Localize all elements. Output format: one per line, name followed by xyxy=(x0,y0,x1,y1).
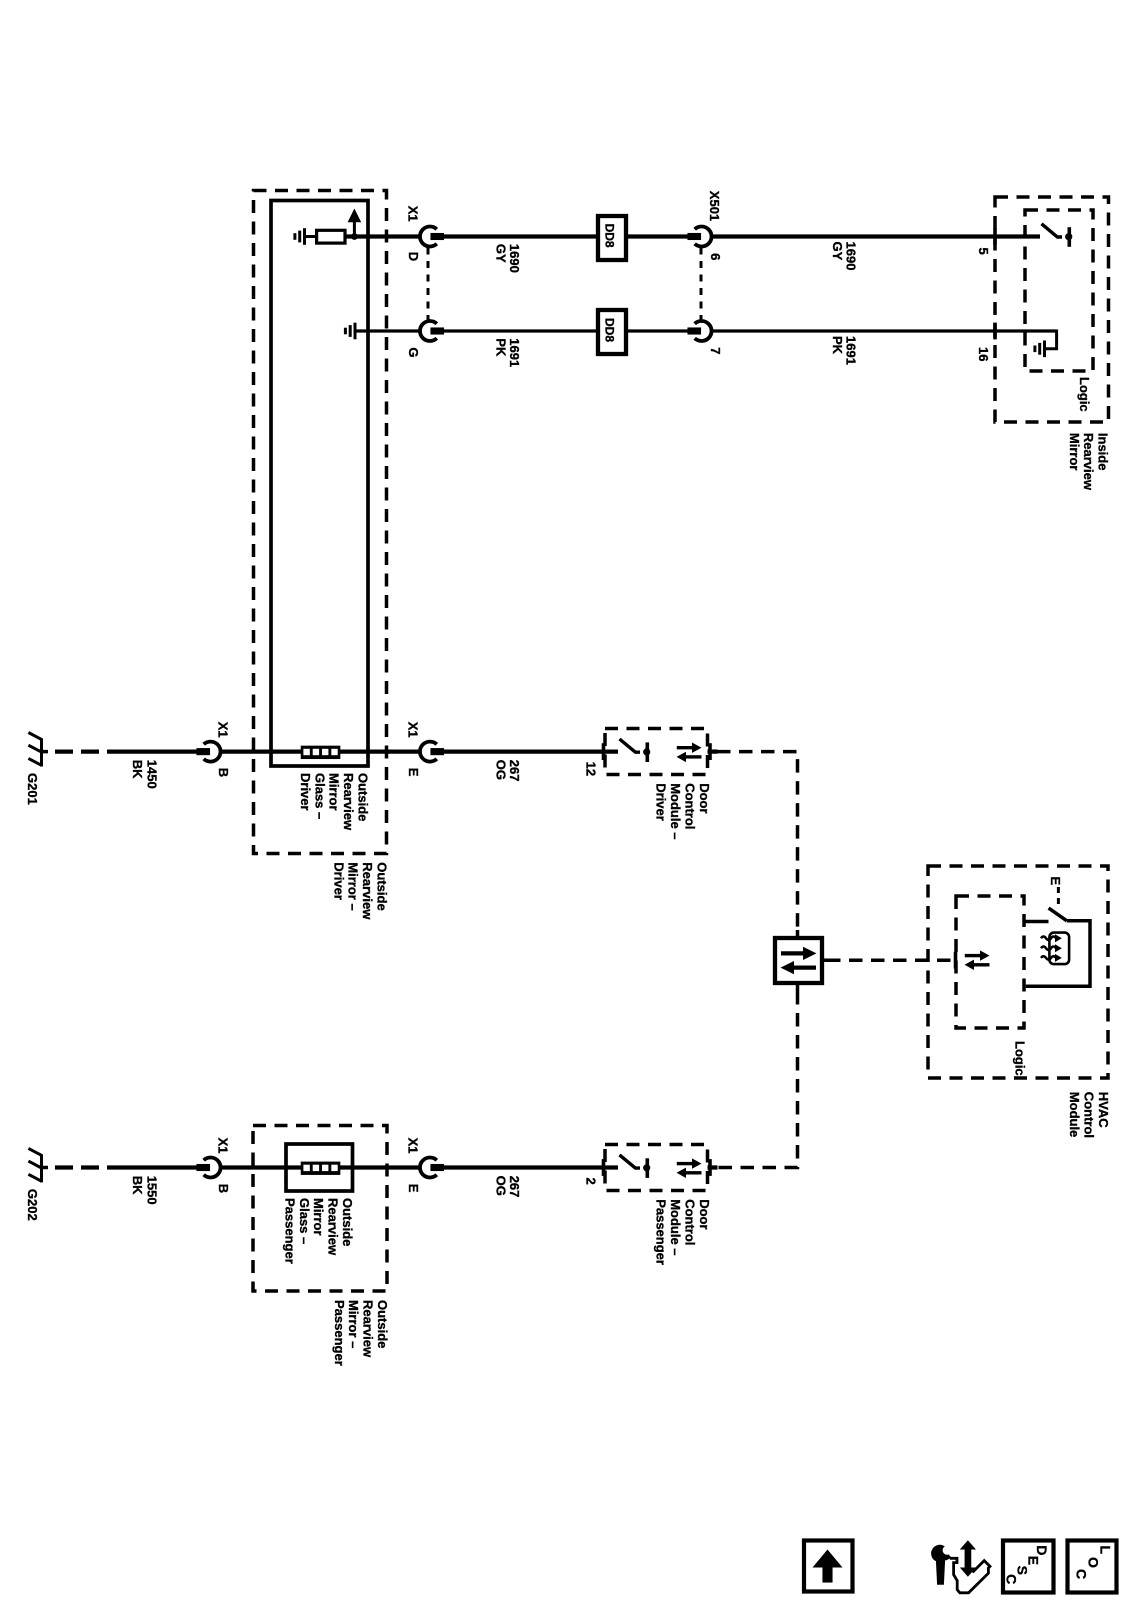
ground symbol in driver mirror glass (wire G) xyxy=(354,323,357,340)
icon box up arrow xyxy=(804,1541,853,1592)
icon box DESC xyxy=(1003,1541,1054,1593)
svg-text:OG: OG xyxy=(494,1176,509,1196)
connector X501 pin 7 xyxy=(695,321,712,341)
ground symbol in driver mirror glass (wire D) xyxy=(303,228,306,245)
svg-text:Rearview: Rearview xyxy=(360,862,375,920)
svg-text:5: 5 xyxy=(976,248,991,255)
icon wrench xyxy=(931,1545,948,1562)
dashed box HVAC Control Module xyxy=(928,866,1108,1078)
wire 1690 GY segment 1 xyxy=(444,234,600,238)
svg-text:Control: Control xyxy=(1082,1092,1097,1138)
pin tick HVAC logic xyxy=(954,952,958,969)
svg-text:Driver: Driver xyxy=(298,773,313,811)
svg-text:7: 7 xyxy=(708,347,723,354)
serial data symbol HVAC xyxy=(965,954,980,957)
svg-text:PK: PK xyxy=(830,336,845,355)
wire 1450 BK xyxy=(107,749,197,753)
svg-text:1550: 1550 xyxy=(145,1176,160,1205)
connector X1 pin B (driver) xyxy=(204,742,221,762)
svg-text:E: E xyxy=(406,768,421,777)
svg-text:Mirror: Mirror xyxy=(327,773,342,811)
dashed box Outside Rearview Mirror - Driver xyxy=(254,191,387,854)
wire 1691 PK segment 1 xyxy=(444,329,600,332)
pin tick 2 xyxy=(602,1159,606,1176)
wire 16 elbow to ground xyxy=(1046,330,1057,349)
svg-text:Module: Module xyxy=(1067,1092,1082,1138)
dashed link X1 D-G xyxy=(427,248,430,321)
icon V outline xyxy=(950,1558,990,1593)
wire into passenger glass box xyxy=(221,1165,303,1169)
svg-text:D: D xyxy=(1034,1545,1050,1555)
svg-text:Passenger: Passenger xyxy=(654,1199,669,1265)
wire 1691 PK segment 2 xyxy=(624,329,688,332)
svg-text:Rearview: Rearview xyxy=(326,1198,341,1256)
switch in inside rearview mirror xyxy=(1042,224,1063,237)
connector X1 pin D xyxy=(420,227,437,247)
svg-text:BK: BK xyxy=(130,760,145,779)
svg-text:X1: X1 xyxy=(406,206,421,222)
svg-text:Passenger: Passenger xyxy=(282,1198,297,1264)
dashed box Logic (HVAC) xyxy=(956,896,1024,1028)
svg-text:X501: X501 xyxy=(707,191,722,221)
svg-text:Door: Door xyxy=(697,1199,712,1229)
svg-text:Module –: Module – xyxy=(668,783,683,839)
connector X501 pin 6 xyxy=(695,227,712,247)
switch in door control module passenger xyxy=(620,1155,641,1168)
resistor (mirror heater element driver) xyxy=(317,230,345,243)
svg-text:Outside: Outside xyxy=(375,1300,390,1348)
svg-text:Rearview: Rearview xyxy=(341,773,356,831)
stub out of door module passenger xyxy=(708,1165,718,1169)
connector X1 pin B (passenger) xyxy=(204,1158,221,1178)
wire 1690 GY segment 2 xyxy=(624,234,688,238)
svg-text:Outside: Outside xyxy=(375,862,390,910)
ground G202 symbol xyxy=(40,1154,43,1182)
svg-text:Rearview: Rearview xyxy=(361,1300,376,1358)
wire into driver glass box xyxy=(221,749,303,753)
svg-text:Rearview: Rearview xyxy=(1081,433,1096,491)
svg-text:E: E xyxy=(1026,1556,1042,1565)
splice DD8 (wire 1691) xyxy=(598,310,626,354)
wire to X1 E (driver) xyxy=(339,749,421,753)
dashed box Logic (inside rearview mirror) xyxy=(1025,210,1093,371)
pin tick right (door module passenger) xyxy=(708,1159,712,1176)
dashed lead from G202 xyxy=(55,1165,73,1169)
dashed lead from G201 xyxy=(55,749,73,753)
pin tick 12 xyxy=(602,743,606,760)
svg-text:HVAC: HVAC xyxy=(1096,1092,1111,1128)
solid box Outside Rearview Mirror Glass - Passenger xyxy=(286,1144,353,1191)
svg-text:Inside: Inside xyxy=(1096,433,1111,471)
svg-text:PK: PK xyxy=(494,338,509,357)
serial data symbol door module passenger xyxy=(677,1162,692,1165)
heated mirror indicator icon xyxy=(1049,933,1069,965)
svg-text:X1: X1 xyxy=(216,722,231,738)
dashed box Door Control Module - Passenger xyxy=(605,1145,708,1191)
wire G inside box xyxy=(356,329,421,332)
wire 267 OG (driver) xyxy=(444,749,618,753)
svg-text:G202: G202 xyxy=(25,1189,40,1221)
svg-text:DD8: DD8 xyxy=(603,318,617,342)
svg-text:12: 12 xyxy=(584,762,599,776)
connector X1 pin E (driver) xyxy=(420,742,437,762)
stub below serial junction box xyxy=(796,983,800,991)
svg-text:L: L xyxy=(1098,1546,1114,1555)
dashed wire junction box to HVAC xyxy=(827,958,953,962)
dashed stub below E xyxy=(1057,887,1060,906)
serial data junction box xyxy=(775,938,822,983)
svg-text:X1: X1 xyxy=(406,722,421,738)
pin tick right (door module driver) xyxy=(708,743,712,760)
dashed box Inside Rearview Mirror xyxy=(995,197,1109,422)
svg-text:C: C xyxy=(1003,1574,1019,1584)
svg-text:GY: GY xyxy=(494,244,509,263)
svg-text:Control: Control xyxy=(682,1199,697,1245)
svg-text:Glass –: Glass – xyxy=(297,1198,312,1244)
svg-text:Driver: Driver xyxy=(654,783,669,821)
pin tick 5 xyxy=(993,228,997,245)
dashed box Outside Rearview Mirror - Passenger xyxy=(253,1126,387,1292)
arrows in junction box xyxy=(781,951,803,955)
junction dot wire D xyxy=(351,233,358,240)
wire 1691 PK segment 3 xyxy=(712,329,1057,332)
wire 1550 BK xyxy=(107,1165,197,1169)
icon up-down arrow xyxy=(965,1548,972,1569)
connector X1 pin G xyxy=(420,321,437,341)
svg-text:Glass –: Glass – xyxy=(312,773,327,819)
svg-text:G: G xyxy=(406,347,421,357)
svg-text:Door: Door xyxy=(697,783,712,813)
svg-text:BK: BK xyxy=(130,1176,145,1195)
svg-text:Module –: Module – xyxy=(668,1199,683,1255)
svg-text:OG: OG xyxy=(494,760,509,780)
svg-text:D: D xyxy=(406,252,421,261)
ground G201 symbol xyxy=(40,738,43,766)
heater element driver mirror glass xyxy=(301,746,341,759)
stub out of door module driver xyxy=(708,749,718,753)
svg-text:G201: G201 xyxy=(25,773,40,805)
svg-text:Logic: Logic xyxy=(1077,377,1092,412)
svg-text:DD8: DD8 xyxy=(603,224,617,248)
svg-text:Control: Control xyxy=(682,783,697,829)
svg-text:1450: 1450 xyxy=(145,760,160,789)
arrow up at junction xyxy=(353,221,356,237)
ground symbol inside rearview mirror xyxy=(1043,341,1046,358)
svg-text:Driver: Driver xyxy=(331,862,346,900)
solid box Outside Rearview Mirror Glass - Driver xyxy=(271,201,368,767)
serial data symbol door module driver xyxy=(677,746,692,749)
svg-text:B: B xyxy=(216,768,231,777)
stub above serial junction box xyxy=(796,930,800,939)
svg-text:GY: GY xyxy=(830,242,845,261)
wire 1690 GY segment 3 xyxy=(712,234,1041,238)
dashed wire door module driver to junction xyxy=(717,752,798,930)
svg-text:2: 2 xyxy=(584,1178,599,1185)
icon box LOC xyxy=(1068,1541,1117,1593)
heater element passenger mirror glass xyxy=(301,1162,341,1175)
svg-text:Mirror –: Mirror – xyxy=(346,1300,361,1348)
svg-text:Mirror –: Mirror – xyxy=(346,862,361,910)
svg-text:6: 6 xyxy=(708,253,723,260)
wire 267 OG (passenger) xyxy=(444,1165,618,1169)
svg-text:X1: X1 xyxy=(406,1138,421,1154)
svg-text:X1: X1 xyxy=(216,1138,231,1154)
svg-text:Outside: Outside xyxy=(340,1198,355,1246)
svg-text:Mirror: Mirror xyxy=(1067,433,1082,471)
svg-text:16: 16 xyxy=(976,347,991,361)
svg-text:Passenger: Passenger xyxy=(332,1300,347,1366)
dashed link X501 6-7 xyxy=(700,248,703,321)
svg-text:E: E xyxy=(1048,877,1063,886)
wire D inside box xyxy=(344,234,421,238)
svg-text:Mirror: Mirror xyxy=(311,1198,326,1236)
switch in door control module driver xyxy=(620,739,641,752)
svg-text:O: O xyxy=(1086,1557,1102,1568)
svg-text:B: B xyxy=(216,1184,231,1193)
splice DD8 (wire 1690) xyxy=(598,216,626,260)
pin tick 16 xyxy=(993,323,997,340)
svg-text:C: C xyxy=(1074,1569,1090,1579)
svg-text:Logic: Logic xyxy=(1013,1041,1028,1076)
svg-text:Outside: Outside xyxy=(356,773,371,821)
stub right of junction box xyxy=(822,958,827,962)
dashed wire junction to passenger door module xyxy=(716,991,798,1168)
switch in HVAC module xyxy=(1024,920,1049,924)
svg-text:E: E xyxy=(406,1184,421,1193)
connector X1 pin E (passenger) xyxy=(420,1158,437,1178)
dashed box Door Control Module - Driver xyxy=(605,729,708,775)
lead ground to resistor xyxy=(306,235,318,238)
wire to X1 E (passenger) xyxy=(339,1165,421,1169)
